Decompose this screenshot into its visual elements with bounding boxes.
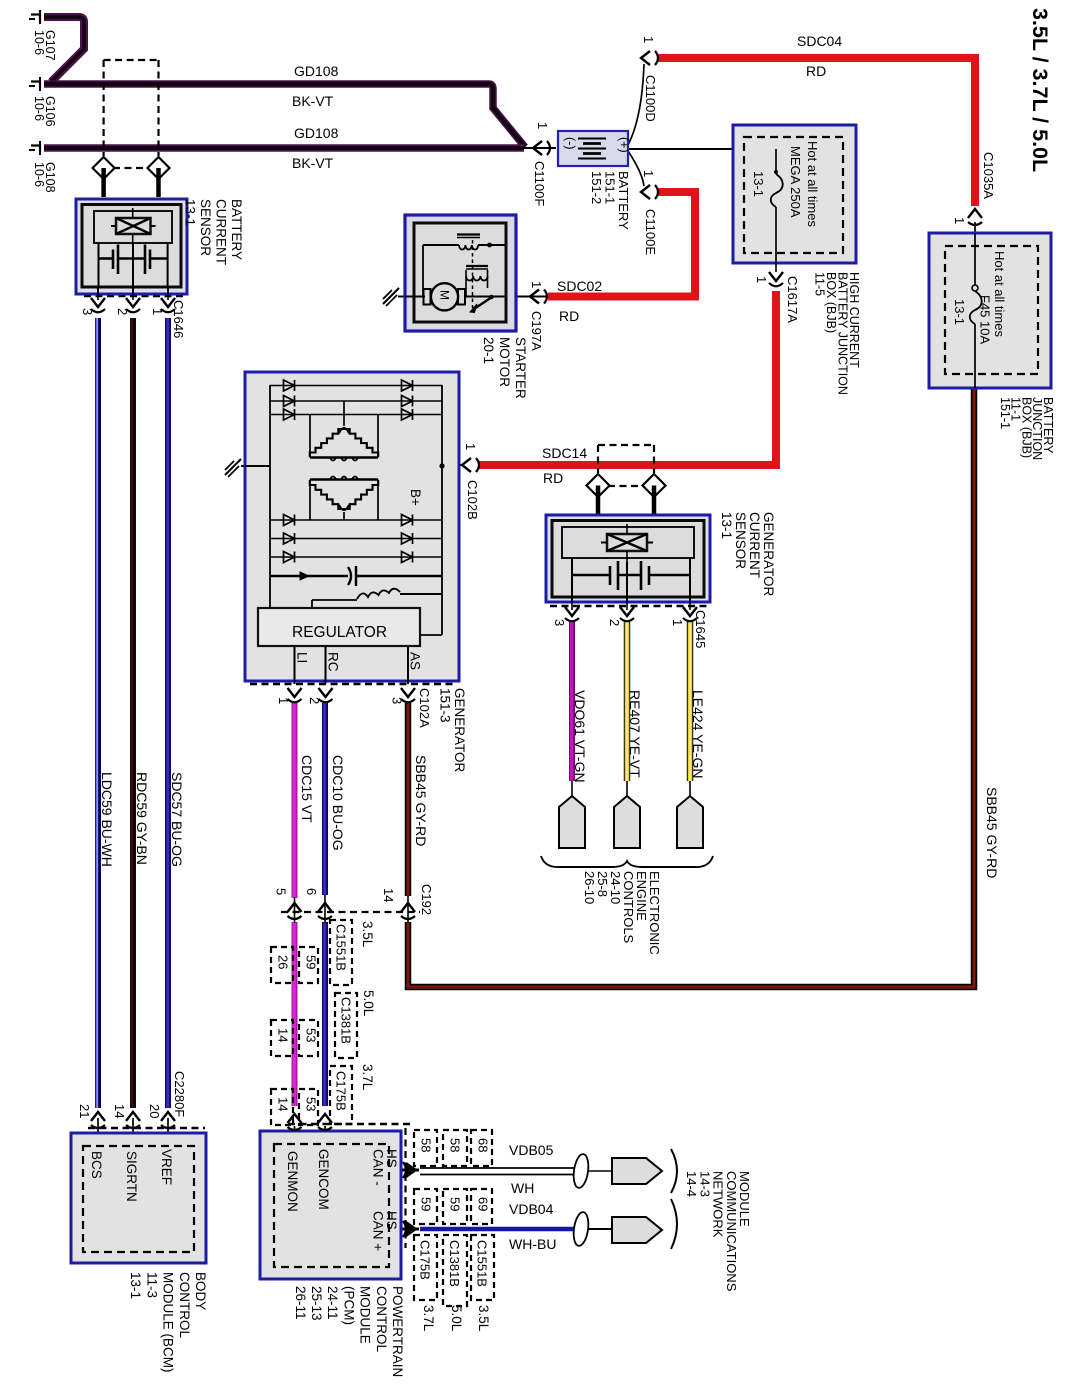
svg-text:58: 58 [419, 1138, 434, 1152]
svg-text:C102A: C102A [417, 688, 432, 728]
svg-text:VREF: VREF [159, 1149, 174, 1185]
svg-text:BK-VT: BK-VT [292, 93, 334, 109]
svg-text:C1551B: C1551B [334, 924, 349, 971]
svg-text:SBB45 GY-RD: SBB45 GY-RD [984, 787, 1000, 878]
svg-text:58: 58 [448, 1138, 463, 1152]
svg-text:C2280F: C2280F [172, 1071, 187, 1117]
svg-text:1: 1 [641, 36, 656, 43]
svg-text:2: 2 [607, 619, 622, 626]
svg-text:GD108: GD108 [294, 125, 339, 141]
svg-text:LE424 YE-GN: LE424 YE-GN [690, 690, 706, 778]
svg-text:CDC15 VT: CDC15 VT [299, 755, 315, 823]
svg-text:VDB05: VDB05 [509, 1142, 554, 1158]
svg-text:5.0L: 5.0L [361, 990, 376, 1017]
svg-text:C1100F: C1100F [532, 161, 547, 206]
svg-text:14: 14 [276, 1097, 291, 1111]
svg-text:RD: RD [559, 308, 579, 324]
svg-text:59: 59 [448, 1197, 463, 1211]
svg-text:RE407 YE-VT: RE407 YE-VT [627, 690, 643, 778]
svg-text:3: 3 [552, 619, 567, 626]
svg-text:C1646: C1646 [171, 300, 186, 338]
svg-text:1: 1 [952, 217, 967, 224]
svg-text:C1100E: C1100E [643, 209, 658, 255]
svg-text:BK-VT: BK-VT [292, 155, 334, 171]
svg-text:C175B: C175B [418, 1240, 433, 1280]
svg-text:C1100D: C1100D [643, 75, 658, 122]
svg-text:2: 2 [307, 697, 322, 704]
svg-text:53: 53 [304, 1097, 319, 1111]
svg-text:SBB45 GY-RD: SBB45 GY-RD [413, 755, 429, 846]
svg-text:3.7L: 3.7L [421, 1305, 436, 1332]
svg-text:VDB04: VDB04 [509, 1201, 554, 1217]
svg-text:1: 1 [754, 276, 769, 283]
svg-text:59: 59 [304, 955, 319, 969]
svg-text:3: 3 [390, 697, 405, 704]
svg-text:C1035A: C1035A [981, 152, 996, 199]
svg-text:1: 1 [276, 697, 291, 704]
svg-text:3.7L: 3.7L [360, 1064, 375, 1091]
svg-text:20: 20 [147, 1104, 162, 1118]
svg-text:14: 14 [381, 888, 396, 902]
svg-text:Hot at all times: Hot at all times [992, 251, 1007, 337]
svg-text:(+): (+) [617, 137, 631, 153]
svg-text:1: 1 [463, 443, 478, 450]
svg-text:M: M [438, 290, 452, 300]
svg-text:F45 10A: F45 10A [978, 295, 993, 344]
svg-text:3: 3 [80, 308, 95, 315]
svg-text:C197A: C197A [529, 311, 544, 351]
svg-text:Hot at all times: Hot at all times [805, 141, 820, 227]
svg-text:3.5L: 3.5L [360, 921, 375, 948]
svg-text:C192: C192 [419, 884, 434, 915]
svg-text:SIGRTN: SIGRTN [124, 1151, 139, 1202]
svg-text:BCS: BCS [89, 1151, 104, 1179]
svg-text:SDC57 BU-OG: SDC57 BU-OG [169, 772, 185, 867]
svg-text:RD: RD [543, 470, 563, 486]
svg-text:C1645: C1645 [693, 610, 708, 648]
svg-text:RC: RC [326, 652, 341, 672]
svg-text:C1617A: C1617A [785, 276, 800, 323]
svg-text:59: 59 [419, 1197, 434, 1211]
svg-text:C1551B: C1551B [475, 1240, 490, 1287]
svg-text:21: 21 [77, 1104, 92, 1118]
svg-text:CDC10 BU-OG: CDC10 BU-OG [330, 755, 346, 851]
svg-text:C175B: C175B [334, 1071, 349, 1111]
svg-text:MEGA 250A: MEGA 250A [788, 146, 803, 218]
svg-text:5.0L: 5.0L [449, 1305, 464, 1332]
svg-text:C1381B: C1381B [339, 997, 354, 1044]
svg-text:RDC59 GY-BN: RDC59 GY-BN [134, 772, 150, 865]
svg-text:3.5L: 3.5L [476, 1305, 491, 1332]
svg-text:RD: RD [806, 63, 826, 79]
svg-text:2: 2 [115, 308, 130, 315]
svg-text:5: 5 [274, 888, 289, 895]
svg-text:LDC59 BU-WH: LDC59 BU-WH [99, 772, 115, 867]
svg-text:68: 68 [476, 1138, 491, 1152]
svg-text:13-1: 13-1 [952, 299, 967, 325]
svg-text:WH-BU: WH-BU [509, 1236, 556, 1252]
svg-text:(-): (-) [563, 137, 577, 150]
svg-text:GD108: GD108 [294, 63, 339, 79]
svg-text:SDC14: SDC14 [542, 445, 587, 461]
svg-text:C102B: C102B [465, 480, 480, 520]
svg-text:AS: AS [408, 652, 423, 670]
svg-text:3.5L / 3.7L / 5.0L: 3.5L / 3.7L / 5.0L [1028, 8, 1052, 172]
svg-text:VDO61 VT-GN: VDO61 VT-GN [572, 690, 588, 783]
svg-text:1: 1 [670, 619, 685, 626]
svg-text:1: 1 [529, 281, 544, 288]
svg-text:WH: WH [511, 1180, 534, 1196]
svg-text:SDC04: SDC04 [797, 33, 842, 49]
svg-text:C1381B: C1381B [447, 1240, 462, 1287]
svg-text:1: 1 [535, 122, 550, 129]
svg-text:GENMON: GENMON [285, 1151, 300, 1212]
svg-text:1: 1 [150, 308, 165, 315]
svg-text:26: 26 [276, 955, 291, 969]
svg-text:SDC02: SDC02 [557, 278, 602, 294]
svg-text:14: 14 [276, 1028, 291, 1042]
svg-text:LI: LI [295, 652, 310, 663]
svg-text:53: 53 [304, 1028, 319, 1042]
svg-text:GENCOM: GENCOM [316, 1149, 331, 1210]
svg-text:B+: B+ [408, 489, 423, 506]
svg-text:69: 69 [476, 1197, 491, 1211]
svg-text:6: 6 [304, 888, 319, 895]
svg-text:1: 1 [641, 170, 656, 177]
svg-text:REGULATOR: REGULATOR [292, 624, 387, 641]
svg-text:14: 14 [112, 1104, 127, 1118]
svg-text:13-1: 13-1 [751, 171, 766, 197]
